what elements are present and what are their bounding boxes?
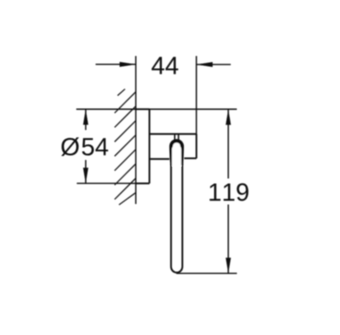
wall face line (also left extension line of dim 44) [135,56,137,204]
bottom extension line of dia 54 [77,182,150,184]
dia 54 dimension line upper segment [85,109,87,130]
dim 44 dimension line left segment [96,63,136,65]
dim 119 dimension line upper segment [227,109,229,178]
label 119 [210,183,249,201]
dim 44 right extension line [195,56,197,134]
ring eyelet sleeve (filled dome) [169,139,184,165]
escutcheon plate bottom edge [136,182,150,184]
label dia 54 [61,137,108,156]
escutcheon plate top edge [136,108,150,110]
dim 44 left arrowhead [120,62,136,67]
wall hatching [115,89,136,205]
dim 119 dimension line lower segment [227,205,229,274]
bottom extension line of dim 119 [176,272,237,274]
holder bracket right edge [195,134,197,158]
holder bracket top edge [149,133,196,135]
dim 44 right arrowhead [196,62,212,67]
dia 54 dimension line lower segment [85,160,87,183]
dia 54 up arrowhead [83,109,88,125]
dia 54 down arrowhead [83,168,88,184]
holder bracket bottom edge left segment [149,158,169,160]
ring eyelet inner channel (white) [172,143,181,166]
dim 119 up arrowhead [226,109,231,125]
ring pivot stem left line [174,134,176,141]
ring pivot stem right line [178,134,180,141]
ring tube sides and bottom cap [171,164,182,273]
dim 44 dimension line right segment [196,64,230,66]
top extension line (shared by dia 54 and dim 119) [76,108,237,110]
dim 119 down arrowhead [226,258,231,274]
label 44 [152,57,179,74]
escutcheon plate right edge [148,109,150,183]
holder bracket bottom edge right segment [184,157,196,159]
